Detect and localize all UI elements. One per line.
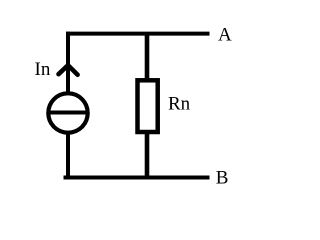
svg-text:In: In [35, 59, 51, 80]
wire: bottom rail to terminal B [64, 176, 210, 180]
current source In: arrowhead [59, 65, 78, 75]
wire: current source bottom to bottom rail [66, 130, 70, 180]
svg-text:B: B [216, 167, 229, 188]
resistor Rn: body [138, 80, 158, 132]
wire: left branch, top rail down to current source [66, 32, 70, 96]
wire: resistor branch vertical [145, 34, 150, 178]
current source In: diameter bar [49, 111, 87, 115]
svg-text:A: A [218, 24, 232, 45]
wire: top rail from left branch to terminal A [66, 32, 210, 36]
current source In: circle body [48, 93, 87, 132]
svg-text:Rn: Rn [168, 93, 191, 114]
